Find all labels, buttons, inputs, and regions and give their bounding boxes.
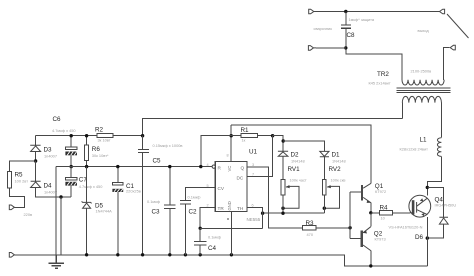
svg-text:GND: GND xyxy=(227,201,232,210)
capacitor C4 xyxy=(194,228,207,255)
node C1 top junction xyxy=(116,165,119,168)
node VCC riser junction xyxy=(199,165,202,168)
transistor Q4 IGBT xyxy=(409,195,431,217)
svg-text:R6: R6 xyxy=(92,146,101,153)
wire DIS node to D1 xyxy=(283,141,324,151)
svg-text:1n4007: 1n4007 xyxy=(44,154,57,159)
wire HV rail left xyxy=(36,135,143,137)
resistor R1 xyxy=(241,134,258,138)
svg-text:C8: C8 xyxy=(347,32,356,39)
svg-text:3к 10вт: 3к 10вт xyxy=(98,138,111,143)
svg-text:R1: R1 xyxy=(241,127,250,134)
wire top rail to output xyxy=(315,11,438,13)
node RV1 wiper junction xyxy=(281,207,284,210)
svg-text:0.1мкф: 0.1мкф xyxy=(188,194,202,199)
wire C8 top stub xyxy=(345,12,347,25)
wire Q1 emitter down xyxy=(370,203,372,213)
node TR C4 junction xyxy=(199,227,202,230)
svg-text:КТ973: КТ973 xyxy=(375,236,386,241)
wire pin 2 TR xyxy=(200,207,215,228)
zener diode D5 xyxy=(82,201,92,208)
node C3 top junction xyxy=(168,165,171,168)
svg-text:RV1: RV1 xyxy=(288,166,301,173)
node C8 bottom junction xyxy=(344,46,347,49)
wire J4 to TR2 secondary right xyxy=(444,48,450,80)
wire Q2 emitter up xyxy=(370,213,372,227)
svg-text:1мкф* защита: 1мкф* защита xyxy=(349,17,375,22)
wire D5 bottom to rail xyxy=(86,208,88,255)
svg-text:0.1мкф: 0.1мкф xyxy=(208,234,222,239)
svg-text:220в: 220в xyxy=(24,212,33,217)
wire VCC rail xyxy=(56,166,212,168)
wire TR2 primary right to L1 xyxy=(440,103,442,138)
potentiometer RV1 xyxy=(281,180,285,195)
svg-text:0.15мкф х 1000в: 0.15мкф х 1000в xyxy=(153,143,183,148)
wire D6 anode to emitter node xyxy=(427,224,443,238)
svg-text:C6: C6 xyxy=(53,116,62,123)
resistor R3 xyxy=(303,226,316,230)
wire D3 anode to node xyxy=(35,152,37,162)
svg-text:1к: 1к xyxy=(242,138,246,143)
connector J3 output top xyxy=(438,9,445,14)
node D3 D4 R5 junction xyxy=(34,159,37,162)
capacitor C5 xyxy=(138,136,149,255)
node Q2 collector rail junction xyxy=(369,264,372,267)
connector J4 output bottom xyxy=(450,45,455,50)
wire DIS node to D2 xyxy=(273,136,284,152)
node Q4 emitter junction xyxy=(426,236,429,239)
node R1 left junction xyxy=(230,134,233,137)
wire pin 6 TH down xyxy=(247,207,263,228)
svg-text:TR: TR xyxy=(218,206,225,211)
diode D3 xyxy=(30,145,40,151)
svg-text:6: 6 xyxy=(252,203,254,207)
wire R1 right xyxy=(258,135,273,137)
svg-text:30к 10вт*: 30к 10вт* xyxy=(92,153,109,158)
wire L1 bottom to Q4 collector xyxy=(427,156,441,195)
svg-text:C2: C2 xyxy=(189,209,198,216)
transformer TR2 primary winding xyxy=(402,96,441,102)
wire R1 left xyxy=(231,135,241,137)
ground xyxy=(49,255,65,268)
capacitor C3 xyxy=(164,167,175,255)
resistor R6 xyxy=(86,136,88,167)
node line B TH junction xyxy=(261,212,264,215)
svg-text:U1: U1 xyxy=(249,149,258,156)
svg-text:3: 3 xyxy=(252,163,254,167)
capacitor C2 xyxy=(180,201,191,255)
svg-text:IRG4PH50U: IRG4PH50U xyxy=(435,203,457,208)
wire D3 top xyxy=(35,136,37,146)
wire C8 bottom to TR2 secondary left xyxy=(346,29,402,80)
svg-text:Q: Q xyxy=(241,165,245,170)
node D1 branch junction xyxy=(282,139,285,142)
node RV2 wiper junction xyxy=(323,207,326,210)
capacitor C6 xyxy=(70,136,72,167)
wire RV2 bottom xyxy=(323,195,325,213)
svg-text:8: 8 xyxy=(227,154,229,158)
connector J5 220v live xyxy=(9,205,14,210)
wire Q4 emitter down to rail xyxy=(426,217,428,266)
svg-text:D1: D1 xyxy=(332,152,341,159)
svg-text:4: 4 xyxy=(207,163,209,167)
wire D4 cathode xyxy=(35,161,37,181)
diode D1 xyxy=(320,151,329,156)
svg-text:C4: C4 xyxy=(208,245,217,252)
wire D4 bus vertical to rail xyxy=(60,197,62,255)
svg-text:1n4007: 1n4007 xyxy=(44,190,57,195)
node R6 bottom junction xyxy=(85,165,88,168)
wire node to R5 top xyxy=(10,161,36,171)
resistor R5 xyxy=(8,171,12,188)
resistor R4 xyxy=(379,211,392,215)
node bases R3 junction xyxy=(348,226,351,229)
op-amp U1 555 timer box xyxy=(215,162,247,212)
svg-text:NE555: NE555 xyxy=(247,217,261,222)
svg-text:CV: CV xyxy=(218,186,225,191)
svg-text:100к част: 100к част xyxy=(290,178,307,183)
svg-text:2100-2500в: 2100-2500в xyxy=(411,69,432,74)
wire R5 bottom zigzag to input xyxy=(10,188,25,208)
wire pin 1 GND to rail xyxy=(230,212,232,255)
svg-text:R5: R5 xyxy=(15,172,24,179)
wire midpoint vertical to rail xyxy=(55,167,57,255)
wire Q1 base xyxy=(350,191,361,193)
potentiometer RV2 xyxy=(322,180,326,195)
node Q4 collector / D6 junction xyxy=(426,186,429,189)
svg-text:R3: R3 xyxy=(306,220,315,227)
svg-text:R2: R2 xyxy=(95,127,104,134)
wire timing node line B xyxy=(263,212,325,214)
node R6 top junction xyxy=(85,134,88,137)
wire Q2 collector down to rail xyxy=(370,251,372,266)
wire Q2 base xyxy=(350,237,361,239)
svg-text:100 2вт: 100 2вт xyxy=(15,179,29,184)
svg-text:D2: D2 xyxy=(291,152,300,159)
wire TR2 primary left down to HV line xyxy=(401,103,403,119)
svg-text:TH: TH xyxy=(237,206,243,211)
wire D6 cathode branch xyxy=(427,187,443,217)
svg-text:4.7мкф х 450: 4.7мкф х 450 xyxy=(52,128,76,133)
connector J6 220v neutral xyxy=(9,253,14,258)
svg-text:D3: D3 xyxy=(44,147,53,154)
svg-text:R4: R4 xyxy=(380,205,389,212)
switch electrode gap xyxy=(447,14,469,38)
svg-text:сварочник: сварочник xyxy=(314,26,333,31)
svg-text:КТ972: КТ972 xyxy=(375,189,386,194)
wire R4 left xyxy=(371,212,380,214)
node HV rail C5 junction xyxy=(141,134,144,137)
svg-text:C5: C5 xyxy=(153,158,162,165)
svg-text:VC: VC xyxy=(227,166,232,172)
wire VCC to pin 8 xyxy=(230,125,232,162)
connector J1 welder top xyxy=(309,9,316,14)
transformer TR2 core xyxy=(397,88,451,92)
wire RV1 bottom xyxy=(282,195,284,213)
wire bottom rail xyxy=(15,255,428,266)
svg-text:L1: L1 xyxy=(420,137,428,144)
wire VCC top line to Q1 collector xyxy=(231,125,371,183)
wire D1 to RV2 xyxy=(323,157,325,180)
svg-text:К45 2х14вит: К45 2х14вит xyxy=(369,81,391,86)
diode D2 xyxy=(278,151,288,156)
svg-text:RV2: RV2 xyxy=(329,166,342,173)
svg-text:7: 7 xyxy=(252,173,254,177)
transistor Q2 xyxy=(361,231,363,247)
svg-text:1N4148: 1N4148 xyxy=(291,159,305,164)
diode D4 xyxy=(31,181,41,187)
node R1 DC junction xyxy=(271,134,274,137)
svg-text:К28х12х8 24вит: К28х12х8 24вит xyxy=(400,147,429,152)
node emitter R4 junction xyxy=(369,211,372,214)
svg-text:470: 470 xyxy=(307,232,314,237)
svg-text:4.7мкф х 450: 4.7мкф х 450 xyxy=(79,184,103,189)
svg-text:D6: D6 xyxy=(415,234,424,241)
node D4 bus junction xyxy=(59,195,62,198)
diode D6 xyxy=(439,217,448,224)
node rail junctions xyxy=(85,253,233,256)
capacitor C8 xyxy=(341,24,351,29)
node C8 top junction xyxy=(344,10,347,13)
wire timing node to TH vertical xyxy=(200,227,262,229)
svg-text:0.1мкф: 0.1мкф xyxy=(147,199,161,204)
wire VCC rail riser to R1 xyxy=(201,136,231,167)
svg-text:DC: DC xyxy=(237,176,244,181)
svg-text:220х25в: 220х25в xyxy=(126,189,141,194)
pin 4 R bubble xyxy=(212,165,215,168)
svg-text:1N4148: 1N4148 xyxy=(332,159,346,164)
wire bases vertical xyxy=(349,192,351,238)
transistor Q1 xyxy=(361,185,363,200)
connector J2 welder bottom xyxy=(308,46,316,51)
svg-text:100к скв: 100к скв xyxy=(331,178,346,183)
svg-text:1N4744A: 1N4744A xyxy=(96,209,113,214)
svg-text:2: 2 xyxy=(207,203,209,207)
wire R3 right to bases xyxy=(316,227,350,229)
node C6 C7 midpoint junction xyxy=(70,165,73,168)
transformer TR2 secondary winding xyxy=(402,80,444,85)
wire HV top line xyxy=(143,119,403,136)
svg-text:VS-HFA16TB120-N: VS-HFA16TB120-N xyxy=(389,225,423,230)
wire pin 5 CV to C2 xyxy=(185,188,215,201)
wire D2 to RV1 xyxy=(282,156,284,179)
wire D5 top xyxy=(86,167,88,203)
wire pin 3 Q output to R3 xyxy=(247,167,303,228)
capacitor C1 xyxy=(117,167,119,255)
capacitor C7 xyxy=(70,167,72,197)
svg-text:D4: D4 xyxy=(44,183,53,190)
wire J2 to C8 bottom xyxy=(316,47,346,49)
wire D4 anode to lower bus xyxy=(36,188,72,198)
resistor R2 xyxy=(97,134,113,138)
svg-text:выход: выход xyxy=(418,28,430,33)
node line B RV1 junction xyxy=(281,212,284,215)
node C6 top junction xyxy=(70,134,73,137)
wire pin 7 DC up to R1 xyxy=(247,136,273,177)
inductor L1 xyxy=(437,138,441,157)
svg-text:C7: C7 xyxy=(79,177,88,184)
svg-text:C3: C3 xyxy=(152,209,161,216)
wire R4 right to Q4 gate xyxy=(393,212,410,214)
svg-text:TR2: TR2 xyxy=(377,71,389,78)
